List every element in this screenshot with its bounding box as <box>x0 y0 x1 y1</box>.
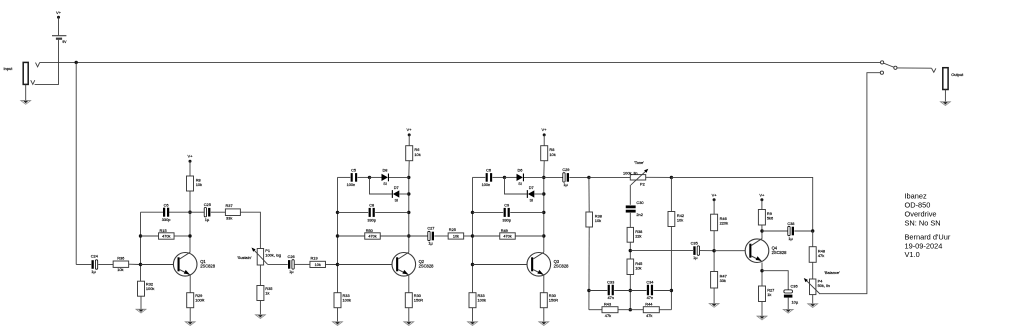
resistor R9 5k6 <box>758 210 765 226</box>
svg-text:Si: Si <box>383 181 387 186</box>
wire <box>464 235 473 237</box>
wire <box>211 211 225 213</box>
capacitor C33 47n <box>608 285 610 296</box>
wire <box>543 308 545 322</box>
capacitor C34 47n <box>647 285 649 296</box>
wire C33 row <box>589 290 607 292</box>
svg-text:47n: 47n <box>607 295 614 300</box>
svg-text:47k: 47k <box>646 313 652 318</box>
svg-text:100k: 100k <box>478 297 486 302</box>
svg-text:C9: C9 <box>504 203 509 208</box>
wire <box>358 176 370 178</box>
wire <box>189 161 191 176</box>
resistor R49 470k <box>500 233 516 239</box>
wire <box>761 302 763 317</box>
svg-text:C26: C26 <box>288 254 295 259</box>
wire <box>646 176 672 178</box>
node <box>471 211 474 214</box>
node tone input <box>587 176 590 179</box>
node <box>670 289 673 292</box>
resistor R30 150R <box>540 293 547 308</box>
wire <box>408 308 410 322</box>
ground <box>757 315 767 317</box>
svg-text:100k: 100k <box>343 297 351 302</box>
switch lever <box>883 63 894 67</box>
wire <box>629 213 631 228</box>
svg-text:V+: V+ <box>759 192 765 197</box>
svg-text:V+: V+ <box>56 10 62 15</box>
wire <box>190 211 204 213</box>
svg-text:R37: R37 <box>226 203 233 208</box>
switch SW1 common contact <box>881 61 884 64</box>
svg-text:P2: P2 <box>640 181 645 186</box>
svg-text:1µ: 1µ <box>788 236 793 241</box>
wire C6 row <box>141 211 164 213</box>
node tone output <box>629 249 632 252</box>
svg-text:'Tone': 'Tone' <box>634 160 644 165</box>
wire tone rail to output node <box>671 177 812 231</box>
node <box>407 176 410 179</box>
wire <box>505 176 517 178</box>
wire to P1 <box>240 212 260 248</box>
svg-text:2SC828: 2SC828 <box>200 264 216 269</box>
svg-text:R49: R49 <box>501 228 508 233</box>
svg-text:1µ: 1µ <box>91 269 96 274</box>
svg-text:470k: 470k <box>503 235 511 239</box>
svg-text:33k: 33k <box>720 278 726 283</box>
resistor R8 10k <box>187 176 194 191</box>
svg-text:C8: C8 <box>369 203 374 208</box>
jack tip contact output <box>932 68 936 72</box>
svg-text:'Sustain': 'Sustain' <box>237 255 252 260</box>
svg-text:33k: 33k <box>226 216 232 221</box>
svg-text:Output: Output <box>951 72 964 77</box>
svg-text:C35: C35 <box>691 241 698 246</box>
resistor R33 100k <box>334 293 341 308</box>
battery BT1 9V <box>52 35 66 37</box>
svg-text:D7: D7 <box>529 185 534 190</box>
wire <box>713 200 715 214</box>
svg-text:R25: R25 <box>449 227 456 232</box>
node diode junction <box>368 176 371 179</box>
svg-text:C33: C33 <box>607 280 614 285</box>
wire base to transistor <box>338 264 393 266</box>
svg-text:Si: Si <box>529 197 533 202</box>
capacitor C24 1u <box>92 260 94 269</box>
output jack J2 <box>943 68 948 90</box>
node output divider top <box>811 229 814 232</box>
node <box>407 234 410 237</box>
node <box>629 289 632 292</box>
capacitor C6 100n <box>486 173 488 182</box>
capacitor C35 1u <box>693 246 695 255</box>
svg-text:V+: V+ <box>187 153 193 158</box>
wire <box>434 235 448 237</box>
svg-text:C30: C30 <box>636 200 644 205</box>
node <box>670 176 673 179</box>
svg-text:10k: 10k <box>677 218 683 223</box>
wire base to transistor <box>473 264 528 266</box>
wire <box>98 264 113 266</box>
node <box>336 211 339 214</box>
wire collector vertical <box>408 161 410 178</box>
ground <box>332 321 342 323</box>
svg-text:C27: C27 <box>427 226 434 231</box>
wire rail tap down to C24 <box>75 62 77 264</box>
node <box>542 176 545 179</box>
svg-text:C5: C5 <box>351 168 356 173</box>
wire <box>544 176 563 178</box>
node emitter <box>760 269 763 272</box>
svg-text:22k: 22k <box>635 233 641 238</box>
svg-text:R36: R36 <box>117 255 124 260</box>
input jack J1 <box>23 62 28 84</box>
wire <box>326 263 338 265</box>
svg-text:150R: 150R <box>549 297 558 302</box>
resistor R35 1k <box>257 286 264 301</box>
wire <box>370 176 382 178</box>
svg-text:10k: 10k <box>635 265 641 270</box>
wire emitter <box>543 275 545 293</box>
wire base vertical <box>337 177 339 292</box>
wire base to Q1 <box>141 264 174 266</box>
ground <box>21 100 31 102</box>
jack tip contact <box>36 63 40 67</box>
wire <box>761 225 763 239</box>
diode D7 Si <box>527 190 528 198</box>
wire R8 to collector node <box>189 191 191 252</box>
ground <box>709 303 719 305</box>
resistor R48 47k <box>809 247 816 263</box>
capacitor C30 2n2 <box>626 205 636 208</box>
capacitor C6 330p <box>163 208 165 217</box>
ground <box>467 321 477 323</box>
transistor Q4 2SC828 <box>745 239 769 263</box>
wire emitter to C36 <box>762 271 788 290</box>
wire <box>812 231 814 247</box>
svg-text:10k: 10k <box>549 152 555 157</box>
svg-text:100n: 100n <box>347 182 356 187</box>
svg-text:100k, lin: 100k, lin <box>623 170 638 175</box>
wire <box>337 308 339 322</box>
wire <box>338 211 369 213</box>
resistor R39 10k left branch <box>586 212 593 227</box>
wire collector to C38 <box>762 230 788 232</box>
capacitor C8 330p <box>369 208 371 217</box>
wire battery to jack ring <box>35 40 59 85</box>
resistor R46 220k <box>711 214 718 231</box>
capacitor C27 1u <box>428 231 430 240</box>
svg-text:C6: C6 <box>486 168 491 173</box>
capacitor C36 10u <box>784 290 793 293</box>
svg-text:C29: C29 <box>562 167 569 172</box>
ground <box>185 321 195 323</box>
svg-text:10k: 10k <box>117 267 123 272</box>
svg-text:C34: C34 <box>646 280 654 285</box>
wire <box>58 17 60 35</box>
wire <box>629 242 631 259</box>
node <box>542 234 545 237</box>
jack ring contact <box>31 80 35 84</box>
potentiometer P4 50k lin Balance <box>810 279 816 295</box>
svg-text:100k, log: 100k, log <box>265 252 281 257</box>
wire <box>129 263 141 265</box>
transistor Q3 2SC828 <box>527 252 551 276</box>
wire <box>473 176 486 178</box>
node <box>629 308 632 311</box>
svg-text:10k: 10k <box>315 263 321 267</box>
resistor R50 470k <box>365 233 381 239</box>
svg-text:2SC828: 2SC828 <box>554 264 570 269</box>
wire collector vertical <box>543 161 545 178</box>
capacitor C29 1u <box>563 173 565 182</box>
ground <box>136 308 146 310</box>
wire <box>76 264 91 266</box>
svg-text:1µ: 1µ <box>693 255 698 260</box>
wire bottom row <box>589 309 602 311</box>
svg-text:47k: 47k <box>818 253 824 258</box>
svg-text:Si: Si <box>518 181 522 186</box>
svg-text:2SC828: 2SC828 <box>419 264 435 269</box>
svg-text:100n: 100n <box>482 182 491 187</box>
wire <box>761 200 763 210</box>
svg-text:1k: 1k <box>767 292 771 297</box>
wire P2 wiper down <box>629 185 631 205</box>
svg-text:1µ: 1µ <box>428 241 433 246</box>
resistor R38 22k <box>627 227 633 242</box>
node <box>471 234 474 237</box>
diode D7 Si <box>392 190 393 198</box>
wire <box>472 308 474 322</box>
svg-text:10k: 10k <box>196 182 202 187</box>
svg-text:C24: C24 <box>91 254 99 259</box>
wire base vertical <box>472 177 474 292</box>
wire <box>543 135 545 146</box>
node <box>587 289 590 292</box>
node <box>336 234 339 237</box>
node <box>542 192 545 195</box>
svg-text:D8: D8 <box>383 167 388 172</box>
ground <box>255 314 265 316</box>
potentiometer P2 100k lin Tone <box>630 175 645 180</box>
transistor Q2 2SC828 <box>392 252 416 276</box>
svg-text:10µ: 10µ <box>792 299 799 304</box>
svg-text:330p: 330p <box>162 217 171 222</box>
wire <box>473 211 504 213</box>
svg-text:1µ: 1µ <box>563 182 568 187</box>
svg-text:150R: 150R <box>414 297 423 302</box>
svg-text:C25: C25 <box>204 202 211 207</box>
svg-text:220k: 220k <box>720 220 728 225</box>
node Q4 collector <box>760 229 763 232</box>
svg-text:330p: 330p <box>502 217 511 222</box>
resistor R45 10k <box>627 259 634 275</box>
wire stage1 base vertical <box>140 212 142 281</box>
svg-text:470k: 470k <box>162 235 170 239</box>
wire base to Q4 <box>714 250 745 252</box>
svg-text:C6: C6 <box>164 202 169 207</box>
svg-text:1µ: 1µ <box>205 217 210 222</box>
svg-text:Si: Si <box>394 197 398 202</box>
svg-text:330p: 330p <box>367 217 376 222</box>
ground <box>539 321 549 323</box>
wire <box>338 176 351 178</box>
capacitor C25 1u <box>204 208 206 217</box>
wire R15 row <box>141 235 159 237</box>
svg-text:V+: V+ <box>541 127 547 132</box>
wire <box>140 296 142 309</box>
wire <box>713 288 715 304</box>
svg-text:10k: 10k <box>595 218 601 223</box>
wire <box>295 263 310 265</box>
wire <box>794 230 812 232</box>
ground <box>404 321 414 323</box>
wire emitter <box>408 275 410 293</box>
svg-text:2n2: 2n2 <box>636 212 643 217</box>
wire switch to output jack <box>897 67 932 69</box>
wire <box>629 275 631 310</box>
capacitor C38 1u <box>788 226 790 235</box>
svg-text:470k: 470k <box>368 235 376 239</box>
transistor Q1 2SC828 <box>173 252 197 276</box>
resistor R25 10k <box>448 233 464 239</box>
node <box>407 211 410 214</box>
wire tone output to C35 <box>630 250 693 252</box>
svg-text:'Balance': 'Balance' <box>824 270 840 275</box>
wire Q4 emitter <box>761 263 763 287</box>
svg-text:V+: V+ <box>406 127 412 132</box>
ground <box>940 101 950 103</box>
wire Q1 emitter <box>189 275 191 293</box>
svg-text:Input: Input <box>4 66 14 71</box>
node stage1 base <box>139 263 142 266</box>
node <box>407 192 410 195</box>
wire P1 wiper to C26 <box>268 263 288 265</box>
capacitor C26 1u <box>288 260 290 269</box>
wire <box>409 235 428 237</box>
resistor R33 100k <box>469 293 476 308</box>
resistor R6 10k <box>406 146 413 161</box>
svg-text:100k: 100k <box>146 286 154 291</box>
wire <box>338 235 365 237</box>
svg-text:V+: V+ <box>712 192 718 197</box>
wire <box>493 176 505 178</box>
svg-text:D6: D6 <box>518 167 523 172</box>
node <box>542 211 545 214</box>
wire P4 wiper to switch <box>820 73 880 294</box>
wire <box>399 193 409 195</box>
wire <box>189 308 191 322</box>
wire <box>569 176 589 178</box>
ground <box>808 303 818 305</box>
svg-text:5k6: 5k6 <box>767 216 773 221</box>
svg-text:10k: 10k <box>453 235 459 239</box>
resistor R47 33k <box>711 272 718 289</box>
wire <box>524 176 544 178</box>
node <box>188 234 191 237</box>
resistor R37 33k <box>225 209 240 216</box>
resistor R30 150R <box>405 293 412 308</box>
svg-text:10k: 10k <box>414 152 420 157</box>
svg-text:R43: R43 <box>604 301 611 306</box>
svg-text:R50: R50 <box>366 228 374 233</box>
svg-text:100R: 100R <box>195 297 204 302</box>
resistor R32 100k <box>138 281 145 296</box>
wire main input rail <box>40 61 881 63</box>
wire jack sleeve to ground <box>944 90 946 102</box>
diode D8 Si <box>382 174 388 181</box>
node <box>139 234 142 237</box>
potentiometer P1 100k log Sustain <box>257 249 263 266</box>
svg-text:1µ: 1µ <box>289 269 294 274</box>
node Q4 base <box>712 249 715 252</box>
wire <box>259 301 261 315</box>
wire tone rail <box>589 176 630 178</box>
svg-text:C36: C36 <box>791 283 798 288</box>
resistor R15 470k <box>159 233 175 239</box>
wire <box>389 176 409 178</box>
svg-text:R44: R44 <box>645 301 653 306</box>
wire <box>370 177 392 194</box>
node <box>336 263 339 266</box>
svg-text:47n: 47n <box>647 295 654 300</box>
ground <box>783 308 793 310</box>
svg-text:C38: C38 <box>787 221 794 226</box>
wire <box>408 135 410 146</box>
wire <box>473 235 500 237</box>
svg-text:50k, lin: 50k, lin <box>818 283 830 288</box>
wire <box>505 177 527 194</box>
resistor R19 10k <box>310 261 326 267</box>
wire <box>787 298 789 310</box>
resistor R36 10k <box>113 261 128 267</box>
resistor R29 100R <box>187 293 194 308</box>
resistor R43 47k <box>602 307 618 313</box>
switch SW1 throw from effect <box>880 71 883 74</box>
svg-text:R15: R15 <box>160 228 167 233</box>
svg-text:1k: 1k <box>265 291 269 296</box>
wire <box>700 250 714 252</box>
resistor R27 1k <box>759 286 766 302</box>
wire jack sleeve to ground <box>25 84 27 100</box>
svg-text:2SC828: 2SC828 <box>772 250 788 255</box>
node diode junction <box>503 176 506 179</box>
capacitor C9 330p <box>504 208 506 217</box>
resistor R8 10k <box>541 146 548 161</box>
node stage1 collector / C6 row <box>188 211 191 214</box>
node <box>471 263 474 266</box>
svg-text:R19: R19 <box>311 256 318 261</box>
svg-text:D7: D7 <box>394 185 399 190</box>
node rail tap <box>75 61 78 64</box>
switch SW1 throw to output <box>894 66 897 69</box>
resistor R42 10k right branch <box>668 212 675 227</box>
resistor R44 47k <box>643 307 659 313</box>
wire P1 bottom to R35 <box>259 265 261 286</box>
capacitor C5 100n <box>351 173 353 182</box>
svg-text:47k: 47k <box>605 313 611 318</box>
wire <box>534 193 544 195</box>
wire <box>713 231 715 272</box>
wire right branch <box>670 177 672 211</box>
wire left branch <box>588 177 590 212</box>
diode D6 Si <box>517 174 523 181</box>
wire <box>812 295 814 304</box>
